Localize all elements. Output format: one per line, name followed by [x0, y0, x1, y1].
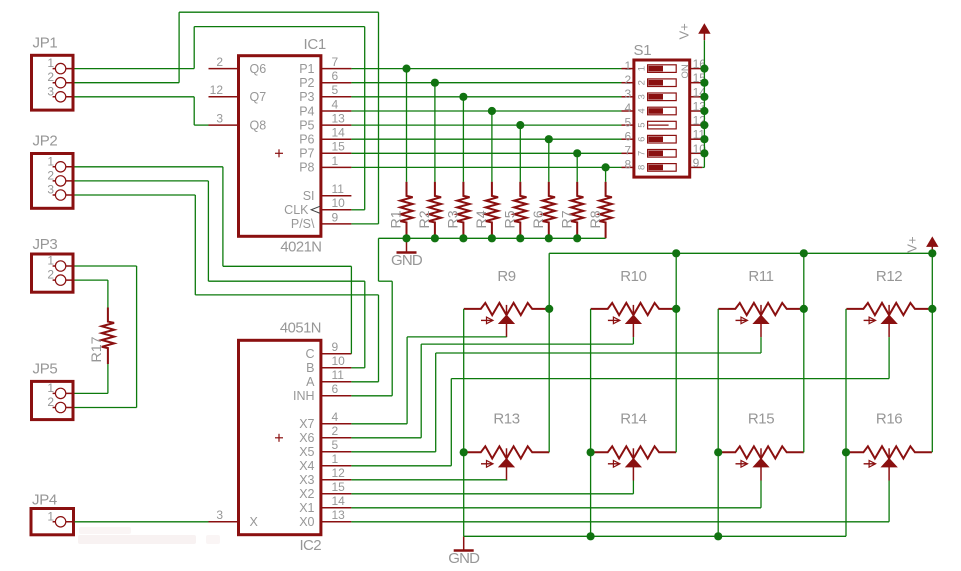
svg-text:3: 3 — [216, 112, 223, 126]
junction R3 bottom — [459, 234, 467, 242]
svg-text:R8: R8 — [588, 210, 604, 228]
wire JP3.2 to R17 — [75, 280, 108, 307]
svg-text:R16: R16 — [876, 411, 902, 428]
svg-text:Q8: Q8 — [250, 118, 267, 132]
svg-text:JP4: JP4 — [32, 491, 57, 508]
svg-text:2: 2 — [332, 424, 339, 438]
svg-text:V+: V+ — [677, 23, 692, 39]
wire P8 row IC1 to S1 — [351, 166, 621, 168]
junction S1 pin 14 — [700, 93, 708, 101]
resistor R2 — [417, 182, 441, 239]
svg-text:X: X — [250, 515, 259, 529]
junction R8 top — [602, 163, 610, 171]
svg-text:P6: P6 — [299, 133, 314, 147]
svg-text:R13: R13 — [493, 411, 519, 428]
potentiometer R11 — [718, 268, 803, 337]
junction R15 left — [714, 448, 722, 456]
svg-text:R5: R5 — [503, 210, 519, 228]
wire JP2.3 to IC2 A — [75, 195, 379, 382]
svg-text:15: 15 — [332, 140, 346, 154]
svg-text:P1: P1 — [299, 62, 314, 76]
junction R7 top — [573, 149, 581, 157]
svg-text:11: 11 — [332, 368, 345, 382]
wire V+ rail pots — [549, 252, 932, 254]
connector JP4 — [31, 491, 75, 535]
junction R13 left — [460, 448, 468, 456]
potentiometer R16 — [846, 411, 932, 481]
wire S1 V+ column — [702, 40, 704, 167]
wire JP3.1 to JP5.2 — [75, 266, 137, 408]
svg-text:X5: X5 — [299, 445, 314, 459]
svg-text:C: C — [305, 347, 314, 361]
svg-text:R4: R4 — [474, 210, 490, 228]
potentiometer R14 — [591, 411, 676, 481]
potentiometer R12 — [846, 268, 932, 337]
svg-text:1: 1 — [332, 452, 339, 466]
svg-text:15: 15 — [332, 480, 346, 494]
junction S1 pin 15 — [700, 79, 708, 87]
svg-text:3: 3 — [47, 84, 54, 98]
potentiometer R9 — [464, 268, 549, 337]
potentiometer R10 — [591, 268, 676, 337]
svg-text:1: 1 — [47, 56, 54, 70]
svg-text:R6: R6 — [531, 210, 547, 228]
svg-text:3: 3 — [47, 183, 54, 197]
resistor R5 — [503, 182, 527, 239]
resistor R4 — [474, 182, 498, 239]
junction S1 pin 12 — [700, 121, 708, 129]
svg-text:4: 4 — [332, 410, 339, 424]
svg-text:CLK: CLK — [284, 203, 309, 217]
wire R4 to row P4 — [491, 111, 493, 182]
svg-text:X2: X2 — [299, 487, 314, 501]
svg-text:11: 11 — [332, 182, 345, 196]
wire JP1.2 to IC1 P/S — [75, 12, 379, 224]
junction V+ rail — [928, 249, 936, 257]
svg-text:R2: R2 — [417, 210, 433, 228]
svg-text:3: 3 — [637, 94, 648, 99]
svg-text:5: 5 — [625, 115, 632, 129]
resistor R6 — [531, 182, 555, 239]
wire R14 wiper to IC2 X2 — [351, 481, 633, 494]
wire JP4.1 to IC2 X — [75, 521, 209, 523]
svg-text:R1: R1 — [389, 210, 405, 228]
junction bottom rail 1 — [587, 532, 595, 540]
svg-text:14: 14 — [332, 494, 346, 508]
svg-text:8: 8 — [637, 165, 648, 170]
potentiometer R13 — [464, 411, 549, 481]
wire left column pot 1 — [463, 309, 465, 536]
svg-text:5: 5 — [637, 122, 648, 127]
svg-text:3: 3 — [625, 87, 632, 101]
junction R2 top — [431, 79, 439, 87]
svg-text:2: 2 — [637, 80, 648, 85]
junction R16 left — [842, 448, 850, 456]
svg-text:Q7: Q7 — [250, 90, 267, 104]
svg-text:R7: R7 — [559, 210, 575, 228]
wire R2 to row P2 — [434, 83, 436, 182]
svg-text:9: 9 — [332, 340, 339, 354]
svg-text:6: 6 — [625, 129, 632, 143]
wire R7 to row P7 — [576, 153, 578, 182]
svg-text:5: 5 — [332, 83, 339, 97]
svg-text:R14: R14 — [620, 411, 646, 428]
svg-text:Q6: Q6 — [250, 62, 267, 76]
wire left column pot 2 — [590, 309, 592, 536]
svg-text:R3: R3 — [446, 210, 462, 228]
wire R9 wiper to IC2 X7 — [351, 337, 506, 424]
svg-text:1: 1 — [332, 154, 339, 168]
svg-text:9: 9 — [332, 210, 339, 224]
svg-text:1: 1 — [47, 254, 54, 268]
svg-text:3: 3 — [216, 508, 223, 522]
svg-text:X4: X4 — [299, 459, 314, 473]
svg-text:R15: R15 — [748, 411, 774, 428]
ground GND at pots — [448, 536, 480, 567]
junction R4 bottom — [488, 234, 496, 242]
svg-text:4: 4 — [637, 108, 648, 113]
junction S1 pin 16 — [700, 65, 708, 73]
IC IC1 4021N shift register — [209, 36, 352, 256]
svg-text:2: 2 — [47, 268, 54, 282]
svg-text:13: 13 — [332, 112, 346, 126]
svg-text:P4: P4 — [299, 104, 314, 118]
resistor R3 — [446, 182, 470, 239]
wire JP1.3 to IC1 Q8 — [75, 97, 209, 125]
svg-text:14: 14 — [332, 126, 346, 140]
junction R3 top — [459, 93, 467, 101]
junction R12 right — [928, 305, 936, 313]
svg-text:6: 6 — [332, 382, 339, 396]
wire V+ column pot 1 — [548, 253, 550, 452]
junction R9 right — [545, 305, 553, 313]
wire R17 to JP5.1 — [75, 364, 108, 393]
potentiometer R15 — [718, 411, 803, 481]
IC IC2 4051N analog mux — [209, 321, 352, 555]
svg-text:10: 10 — [332, 354, 346, 368]
wire R11 wiper to IC2 X5 — [351, 337, 761, 452]
wire V+ column pot 3 — [803, 253, 805, 452]
junction R6 top — [545, 135, 553, 143]
svg-text:A: A — [306, 375, 315, 389]
resistor R7 — [559, 182, 583, 239]
wire R3 to row P3 — [462, 97, 464, 182]
wire R13 wiper to IC2 X3 — [351, 479, 506, 482]
connector JP5 — [32, 361, 75, 420]
svg-text:6: 6 — [637, 137, 648, 142]
wire P2 row IC1 to S1 — [351, 82, 621, 84]
wire R6 to row P6 — [548, 139, 550, 182]
svg-text:GND: GND — [391, 252, 423, 269]
svg-text:R10: R10 — [620, 268, 646, 285]
wire R8 to row P8 — [605, 167, 607, 181]
svg-text:10: 10 — [332, 196, 346, 210]
svg-text:R12: R12 — [876, 268, 902, 285]
ground GND at R1 — [391, 238, 423, 269]
svg-text:P2: P2 — [299, 76, 314, 90]
svg-text:GND: GND — [448, 550, 480, 567]
svg-text:2: 2 — [47, 168, 54, 182]
svg-text:V+: V+ — [904, 236, 919, 252]
svg-text:JP1: JP1 — [33, 35, 58, 52]
junction V+ rail — [672, 249, 680, 257]
wire R1 to row P1 — [406, 69, 408, 182]
wire P6 row IC1 to S1 — [351, 138, 621, 140]
wire V+ column pot 4 — [931, 253, 933, 452]
junction S1 pin 13 — [700, 107, 708, 115]
wire P7 row IC1 to S1 — [351, 152, 621, 154]
svg-text:4: 4 — [332, 97, 339, 111]
junction S1 pin 11 — [700, 135, 708, 143]
svg-text:X3: X3 — [299, 473, 314, 487]
svg-text:JP5: JP5 — [33, 361, 58, 378]
svg-text:7: 7 — [332, 55, 339, 69]
wire JP2.1 to IC2 C — [75, 167, 352, 354]
power V+ at pots — [904, 236, 937, 253]
svg-text:7: 7 — [625, 144, 632, 158]
svg-text:5: 5 — [332, 438, 339, 452]
svg-text:P5: P5 — [299, 118, 314, 132]
svg-text:P/S\: P/S\ — [291, 217, 315, 231]
wire R16 wiper to IC2 X0 — [351, 481, 889, 522]
svg-text:4051N: 4051N — [280, 321, 321, 337]
svg-text:IC1: IC1 — [304, 36, 326, 53]
wire P5 row IC1 to S1 — [351, 124, 621, 126]
junction R14 left — [587, 448, 595, 456]
junction R2 bottom — [431, 234, 439, 242]
svg-text:12: 12 — [332, 466, 346, 480]
junction R4 top — [488, 107, 496, 115]
svg-text:1: 1 — [47, 509, 54, 523]
connector JP1 — [32, 35, 75, 111]
svg-text:12: 12 — [210, 83, 224, 97]
junction R1 top — [402, 65, 410, 73]
svg-text:4021N: 4021N — [280, 240, 321, 256]
svg-text:X0: X0 — [299, 515, 314, 529]
svg-text:2: 2 — [216, 55, 223, 69]
wire GND rail under R1-R8 — [379, 237, 606, 239]
svg-text:4: 4 — [625, 101, 632, 115]
resistor R8 — [588, 182, 612, 239]
svg-text:X7: X7 — [299, 417, 314, 431]
svg-text:7: 7 — [637, 151, 648, 156]
junction bottom rail 2 — [714, 532, 722, 540]
svg-text:R9: R9 — [497, 268, 515, 285]
svg-text:SI: SI — [303, 189, 315, 203]
junction V+ rail — [800, 249, 808, 257]
junction R5 top — [516, 121, 524, 129]
wire left column pot 3 — [717, 309, 719, 536]
resistor R17 — [89, 308, 114, 365]
wire P4 row IC1 to S1 — [351, 110, 621, 112]
svg-text:S1: S1 — [634, 42, 652, 59]
svg-text:13: 13 — [332, 508, 346, 522]
wire R5 to row P5 — [519, 125, 521, 182]
wire GND rail to IC2 INH — [351, 238, 392, 395]
svg-text:R11: R11 — [748, 268, 773, 285]
junction R10 right — [672, 305, 680, 313]
junction R5 bottom — [516, 234, 524, 242]
wire left column pot 4 — [845, 309, 847, 536]
junction R1 bottom — [402, 234, 410, 242]
wire P3 row IC1 to S1 — [351, 96, 621, 98]
svg-text:8: 8 — [625, 158, 632, 172]
connector JP3 — [32, 236, 75, 292]
svg-text:P3: P3 — [299, 90, 314, 104]
svg-text:JP3: JP3 — [33, 236, 58, 253]
wire V+ column pot 2 — [675, 253, 677, 452]
svg-text:6: 6 — [332, 69, 339, 83]
wire JP1.1 to IC1 CLK — [75, 27, 365, 210]
power V+ at S1 — [677, 23, 710, 40]
svg-text:1: 1 — [625, 59, 632, 73]
connector JP2 — [32, 133, 75, 209]
svg-text:1: 1 — [47, 381, 54, 395]
wire P1 row IC1 to S1 — [351, 68, 621, 70]
svg-text:JP2: JP2 — [33, 133, 58, 150]
svg-text:X6: X6 — [299, 431, 314, 445]
switch S1 DIP-8 — [622, 42, 707, 177]
svg-text:1: 1 — [47, 154, 54, 168]
svg-text:INH: INH — [293, 389, 315, 403]
svg-text:9: 9 — [693, 156, 700, 170]
decor — [78, 527, 220, 544]
wire JP2.2 to IC2 B — [75, 181, 365, 368]
svg-text:R17: R17 — [89, 336, 105, 362]
svg-text:IC2: IC2 — [299, 537, 321, 554]
svg-text:X1: X1 — [299, 501, 314, 515]
wire R10 wiper to IC2 X6 — [351, 337, 633, 438]
svg-text:2: 2 — [47, 70, 54, 84]
svg-text:ON: ON — [680, 64, 691, 78]
junction R7 bottom — [573, 234, 581, 242]
svg-text:B: B — [306, 361, 314, 375]
wire bottom GND rail pots — [464, 535, 846, 537]
junction S1 pin 10 — [700, 149, 708, 157]
svg-text:P7: P7 — [299, 147, 314, 161]
svg-text:2: 2 — [625, 73, 632, 87]
junction R6 bottom — [545, 234, 553, 242]
wire R12 wiper to IC2 X4 — [351, 337, 889, 466]
resistor R1 — [389, 182, 413, 239]
junction R11 right — [800, 305, 808, 313]
svg-text:2: 2 — [47, 395, 54, 409]
svg-text:P8: P8 — [299, 161, 314, 175]
wire R15 wiper to IC2 X1 — [351, 481, 761, 508]
svg-text:1: 1 — [637, 66, 648, 71]
